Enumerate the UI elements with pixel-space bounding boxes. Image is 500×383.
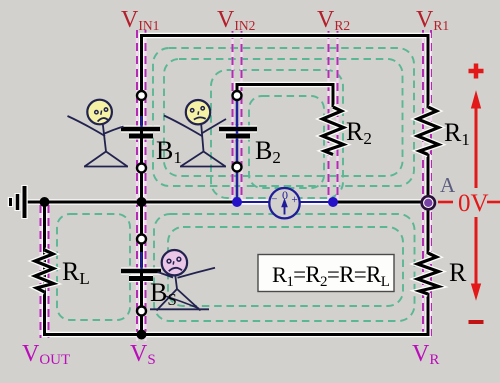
terminal circle BS bottom: [137, 307, 146, 316]
terminal circle BS top: [137, 235, 146, 244]
current loop G5 (BS-R mesh outer): [154, 214, 415, 321]
plus sign right: [469, 64, 484, 79]
voltage band VOUT column (dashes): [41, 205, 49, 338]
resistor RL: [35, 250, 54, 292]
ammeter body: [269, 188, 299, 218]
current loop G1 (B1-R1 mesh outer): [153, 48, 414, 186]
junction dot B1/BS: [137, 197, 147, 207]
figure 3 (at BS): [150, 250, 215, 310]
resistor R: [418, 253, 439, 294]
minus sign right: [469, 320, 484, 324]
junction dot R2 (blue): [328, 197, 338, 207]
wire: B2 branch (navy): [236, 97, 239, 202]
terminal circle B1 bottom: [137, 164, 146, 173]
wire: ammeter navy segment: [237, 201, 333, 203]
voltage band VIN2 column (dashes): [233, 31, 242, 200]
red arrow down (VR): [472, 217, 481, 299]
junction dot BS bottom: [137, 330, 147, 340]
battery B2 plate gap wires: [236, 124, 239, 127]
battery BS plate gap wires: [140, 273, 143, 277]
0V label: [438, 201, 500, 204]
voltage band VR1/VR column (halo): [423, 30, 431, 336]
junction dot B2 (blue): [232, 197, 242, 207]
wire: inner top rail B2 to R2: [237, 85, 333, 108]
svg-text:A: A: [440, 173, 456, 197]
junction dot ground/RL: [40, 197, 50, 207]
resistor R1: [418, 107, 439, 155]
voltage band VR1/VR column (dashes): [423, 30, 431, 336]
red arrow up (VR1): [472, 92, 481, 188]
formula box: [258, 255, 394, 292]
battery B2 plates: [219, 129, 257, 136]
current loop G2 (B1-R1 mesh inner): [164, 59, 403, 176]
wire: middle rail right black part: [333, 201, 423, 204]
wire: R1 lower to node A and R upper: [425, 154, 431, 254]
svg-text:−: −: [271, 194, 277, 206]
ammeter needle: [282, 200, 287, 215]
current loop G7 (BS-RL mesh): [57, 214, 130, 320]
svg-text:0V: 0V: [458, 190, 489, 217]
battery B1 navy tick: [140, 116, 143, 127]
wire: middle 0V rail: [25, 199, 423, 205]
battery B1 plate gap wires: [140, 131, 143, 134]
voltage band VIN1/VS column (dashes): [137, 30, 146, 341]
voltage band VOUT column (halo): [41, 205, 49, 338]
battery B1 plates: [121, 129, 160, 136]
resistor R2: [323, 107, 344, 155]
terminal circle B1 top: [137, 91, 146, 100]
figure 1 (at B1): [68, 100, 129, 167]
voltage band VIN1/VS column (halo): [137, 30, 146, 341]
ground: [11, 185, 25, 219]
voltage band VR2 column (dashes): [329, 31, 338, 200]
current loop G4 (B2-R2 mesh inner): [249, 96, 324, 188]
battery BS plates: [121, 271, 161, 279]
wire: bottom rail: [45, 202, 429, 335]
svg-text:+: +: [291, 194, 298, 206]
terminal circle B2 bottom: [233, 163, 242, 172]
current loop G6 (BS-R mesh inner): [168, 227, 403, 306]
voltage band VR2 column (halo): [329, 31, 338, 200]
battery BS navy tick: [140, 252, 143, 269]
figure 2 (at B2): [164, 100, 226, 167]
voltage band VIN2 column (halo): [233, 31, 242, 200]
wire: BS branch: [139, 202, 145, 334]
svg-text:R: R: [449, 258, 467, 287]
node A: [422, 196, 435, 209]
terminal circle B2 top: [233, 91, 242, 100]
current loop G3 (B2-R2 mesh outer): [211, 70, 343, 198]
wire: outer top rail: [142, 36, 429, 203]
